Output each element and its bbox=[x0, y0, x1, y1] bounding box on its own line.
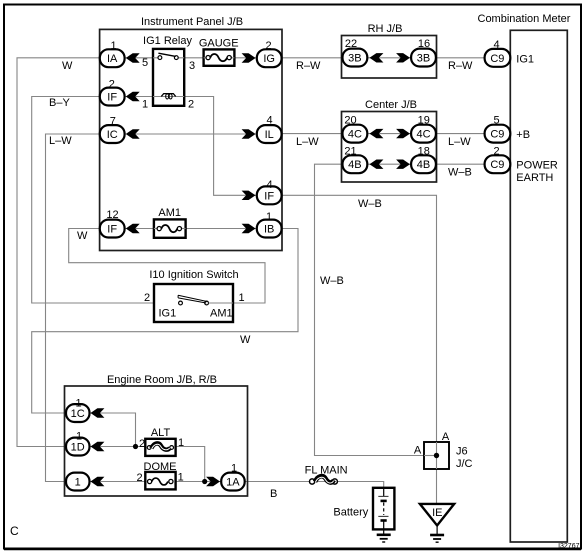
svg-text:2: 2 bbox=[139, 438, 145, 450]
connector C9 5 +B bbox=[485, 125, 511, 143]
connector IB bbox=[257, 220, 282, 238]
wire engine room 1D to ALT fuse pin 2 bbox=[89, 446, 145, 448]
svg-text:W: W bbox=[77, 230, 88, 242]
wire IG to RH J/B 3B, R-W bbox=[281, 57, 342, 59]
GAUGE fuse symbol bbox=[204, 57, 206, 59]
connector C9 4 IG1 bbox=[485, 49, 511, 67]
ignition switch contact IG1 bbox=[179, 301, 183, 305]
svg-text:W–B: W–B bbox=[320, 275, 344, 287]
wire L-W from IC down to engine room oval 1 bbox=[46, 134, 100, 482]
svg-text:1: 1 bbox=[238, 292, 244, 304]
arrow at IA bbox=[126, 53, 140, 62]
arrow at 1C bbox=[91, 408, 105, 417]
Engine Room J/B, R/B box bbox=[65, 386, 248, 496]
svg-text:C9: C9 bbox=[490, 129, 504, 141]
svg-text:R–W: R–W bbox=[448, 60, 473, 72]
arrow at 4C left bbox=[370, 129, 384, 138]
arrow at 3B right bbox=[396, 53, 410, 62]
arrow at 4C right bbox=[396, 129, 410, 138]
arrow at IF4 bbox=[242, 191, 256, 200]
svg-text:IB: IB bbox=[264, 224, 274, 236]
wire RH J/B internal 3B to 3B bbox=[367, 57, 411, 59]
arrow at IF2 bbox=[126, 92, 140, 101]
arrow at IG bbox=[242, 53, 256, 62]
svg-text:IF: IF bbox=[107, 92, 117, 104]
ignition switch wire stub right bbox=[209, 302, 233, 304]
IE ground triangle bbox=[420, 504, 454, 526]
svg-text:I10 Ignition Switch: I10 Ignition Switch bbox=[149, 269, 238, 281]
wire IA row to relay pin 5 bbox=[124, 57, 153, 59]
svg-text:2: 2 bbox=[109, 78, 115, 90]
DOME fuse box bbox=[145, 472, 175, 490]
wire IF(12) to AM1 fuse bbox=[124, 228, 154, 230]
wire Center J/B internal 4C to 4C bbox=[367, 133, 411, 135]
wire Center J/B internal 4B to 4B bbox=[367, 163, 411, 165]
arrow at 4B right bbox=[396, 160, 410, 169]
ignition switch lever bbox=[178, 295, 207, 303]
svg-text:20: 20 bbox=[344, 115, 356, 127]
svg-text:7: 7 bbox=[110, 116, 116, 128]
svg-text:2: 2 bbox=[136, 472, 142, 484]
junction dot 1A row bbox=[202, 479, 207, 484]
connector IA bbox=[100, 49, 125, 67]
wire AM1 fuse to IB bbox=[186, 228, 257, 230]
svg-text:4: 4 bbox=[266, 115, 272, 127]
svg-text:12: 12 bbox=[106, 209, 118, 221]
GAUGE fuse box bbox=[204, 49, 235, 65]
AM1 fuse box bbox=[154, 219, 186, 237]
connector 3B 22 bbox=[343, 49, 368, 67]
svg-text:R–W: R–W bbox=[296, 60, 321, 72]
Instrument Panel J/B box bbox=[100, 29, 282, 250]
svg-text:RH J/B: RH J/B bbox=[368, 23, 403, 35]
svg-text:A: A bbox=[442, 431, 450, 443]
svg-text:1: 1 bbox=[76, 431, 82, 443]
connector 1D bbox=[66, 438, 90, 456]
svg-text:IF: IF bbox=[107, 224, 117, 236]
arrow at 3B left bbox=[370, 53, 384, 62]
FL MAIN fusible link bbox=[310, 479, 315, 484]
svg-text:J6: J6 bbox=[456, 446, 468, 458]
arrow at 1D bbox=[91, 442, 105, 451]
svg-text:1: 1 bbox=[75, 398, 81, 410]
wire IL to Center J/B 4C, L-W bbox=[281, 133, 342, 135]
arrow at 1A bbox=[206, 477, 220, 486]
wire ALT pin 1 down to 1A row bbox=[176, 447, 205, 482]
svg-text:AM1: AM1 bbox=[158, 207, 181, 219]
connector 4B 18 bbox=[411, 155, 436, 173]
arrow at 4B left bbox=[370, 160, 384, 169]
svg-text:IG1: IG1 bbox=[159, 308, 177, 320]
arrow at oval 1 bbox=[91, 477, 105, 486]
wire J6 to IE triangle bbox=[436, 469, 438, 504]
wire B-Y from IF(2) to ignition switch terminal 2 bbox=[32, 97, 178, 304]
relay contact circle pin 5 bbox=[158, 56, 162, 60]
svg-text:3: 3 bbox=[189, 60, 195, 72]
wire IF(4) to J6 vertical, W-B bbox=[281, 195, 436, 442]
connector IL bbox=[257, 125, 282, 143]
connector 4B 21 bbox=[343, 155, 368, 173]
J6 internal wire and dot bbox=[436, 442, 438, 469]
wire 1A to FL MAIN to battery, B bbox=[244, 482, 384, 488]
battery internal plates bbox=[383, 488, 385, 496]
junction dot ALT pin 2 bbox=[133, 444, 138, 449]
svg-text:IL: IL bbox=[265, 129, 274, 141]
svg-text:Battery: Battery bbox=[333, 507, 368, 519]
svg-text:IF: IF bbox=[264, 190, 274, 202]
svg-text:A: A bbox=[414, 445, 422, 457]
svg-text:W–B: W–B bbox=[448, 167, 472, 179]
svg-text:C9: C9 bbox=[490, 53, 504, 65]
svg-text:18: 18 bbox=[418, 145, 430, 157]
wire W from IF(12) to ignition switch terminal 1 loop bbox=[69, 229, 265, 304]
svg-text:C: C bbox=[10, 524, 19, 538]
svg-text:+B: +B bbox=[516, 129, 530, 141]
connector C9 2 POWER EARTH bbox=[485, 155, 511, 173]
relay coil symbol bbox=[161, 94, 175, 97]
connector IG bbox=[257, 49, 282, 67]
relay lever bbox=[158, 53, 175, 56]
connector IF 4 bbox=[257, 186, 282, 204]
arrow at IF12 bbox=[126, 224, 140, 233]
svg-text:4B: 4B bbox=[348, 159, 361, 171]
arrow at IB bbox=[242, 224, 256, 233]
svg-text:W: W bbox=[62, 60, 73, 72]
wire relay pin 2 to IF(4) internal bbox=[184, 97, 257, 196]
svg-text:L–W: L–W bbox=[49, 135, 72, 147]
svg-text:3B: 3B bbox=[417, 53, 430, 65]
svg-text:1: 1 bbox=[231, 463, 237, 475]
outer border bottom thick line bbox=[4, 549, 581, 551]
svg-text:GAUGE: GAUGE bbox=[199, 37, 239, 49]
svg-text:B–Y: B–Y bbox=[49, 97, 70, 109]
wire relay pin 3 to GAUGE bbox=[184, 57, 203, 59]
svg-text:C9: C9 bbox=[490, 159, 504, 171]
connector 3B 16 bbox=[411, 49, 436, 67]
wire engine room 1C to ALT junction bbox=[89, 413, 136, 447]
svg-text:1: 1 bbox=[178, 437, 184, 449]
wire RH J/B to C9 IG1, R-W bbox=[436, 57, 485, 59]
svg-text:3B: 3B bbox=[348, 53, 361, 65]
svg-text:IC: IC bbox=[107, 129, 118, 141]
svg-text:1: 1 bbox=[75, 477, 81, 489]
svg-text:IG1: IG1 bbox=[516, 54, 534, 66]
wire engine room oval 1 to DOME fuse pin 2 bbox=[89, 481, 145, 483]
svg-text:1A: 1A bbox=[226, 477, 240, 489]
svg-text:ALT: ALT bbox=[151, 427, 171, 439]
ignition switch contact AM1 bbox=[205, 301, 209, 305]
svg-text:4B: 4B bbox=[417, 159, 430, 171]
svg-text:19: 19 bbox=[418, 115, 430, 127]
svg-text:1: 1 bbox=[142, 99, 148, 111]
connector 1 bbox=[66, 473, 90, 491]
svg-text:16: 16 bbox=[418, 38, 430, 50]
svg-text:22: 22 bbox=[345, 38, 357, 50]
ground under battery bbox=[383, 529, 385, 534]
svg-text:2: 2 bbox=[493, 145, 499, 157]
svg-text:AM1: AM1 bbox=[210, 308, 233, 320]
svg-text:4: 4 bbox=[266, 179, 272, 191]
ALT fuse box bbox=[145, 439, 175, 456]
connector 4C 20 bbox=[343, 125, 368, 143]
connector IC bbox=[100, 125, 125, 143]
svg-text:5: 5 bbox=[142, 57, 148, 69]
ground under IE bbox=[436, 526, 438, 535]
svg-text:POWER: POWER bbox=[516, 160, 558, 172]
svg-text:4: 4 bbox=[493, 39, 499, 51]
svg-text:2: 2 bbox=[265, 40, 271, 52]
svg-text:DOME: DOME bbox=[144, 461, 177, 473]
svg-text:IE: IE bbox=[432, 507, 442, 519]
wire DOME pin 1 to 1A bbox=[176, 481, 222, 483]
svg-text:1: 1 bbox=[266, 211, 272, 223]
RH J/B box bbox=[342, 36, 437, 79]
svg-text:B: B bbox=[270, 488, 277, 500]
wire 4B(21) left down to J6, W-B bbox=[315, 164, 425, 455]
svg-text:FL MAIN: FL MAIN bbox=[305, 465, 348, 477]
ALT fusible link symbol bbox=[147, 446, 151, 450]
svg-text:1C: 1C bbox=[71, 408, 85, 420]
svg-text:IG: IG bbox=[263, 53, 275, 65]
svg-text:21: 21 bbox=[344, 145, 356, 157]
arrow at IC bbox=[126, 129, 140, 138]
DOME fuse symbol bbox=[148, 479, 152, 483]
svg-text:2: 2 bbox=[144, 292, 150, 304]
svg-text:IG1 Relay: IG1 Relay bbox=[143, 35, 192, 47]
svg-text:1: 1 bbox=[178, 472, 184, 484]
svg-text:Instrument Panel J/B: Instrument Panel J/B bbox=[141, 16, 243, 28]
AM1 fuse symbol bbox=[154, 228, 157, 230]
relay contact stub wires bbox=[153, 57, 158, 59]
svg-text:IA: IA bbox=[107, 53, 118, 65]
svg-text:L–W: L–W bbox=[296, 136, 319, 148]
connector IF 2 bbox=[100, 88, 125, 106]
wire 4C to C9 +B, L-W bbox=[436, 133, 485, 135]
connector 4C 19 bbox=[411, 125, 436, 143]
relay contact circle pin 3 bbox=[174, 56, 178, 60]
svg-text:2: 2 bbox=[188, 99, 194, 111]
wire IF(2) row to relay pin 1 bbox=[124, 96, 153, 98]
Battery box bbox=[373, 488, 394, 530]
arrow at IL bbox=[242, 129, 256, 138]
svg-text:Center J/B: Center J/B bbox=[365, 99, 417, 111]
IG1 Relay box bbox=[153, 49, 184, 106]
connector 1C bbox=[66, 404, 90, 422]
relay coil row wire bbox=[153, 96, 184, 98]
wire W from IB down-left to engine room 1C bbox=[32, 229, 298, 414]
I10 Ignition Switch box bbox=[154, 284, 233, 322]
svg-text:J/C: J/C bbox=[456, 458, 473, 470]
svg-text:4C: 4C bbox=[348, 129, 362, 141]
wire GAUGE to IG bbox=[234, 57, 256, 59]
svg-text:Engine Room J/B, R/B: Engine Room J/B, R/B bbox=[107, 374, 217, 386]
connector 1A bbox=[221, 473, 245, 491]
Combination Meter box bbox=[510, 30, 567, 542]
svg-text:4C: 4C bbox=[416, 129, 430, 141]
svg-text:EARTH: EARTH bbox=[516, 172, 553, 184]
wire 4B to C9 POWER EARTH, W-B bbox=[436, 163, 485, 165]
svg-text:5: 5 bbox=[493, 115, 499, 127]
svg-text:L–W: L–W bbox=[448, 136, 471, 148]
svg-text:Combination Meter: Combination Meter bbox=[478, 13, 571, 25]
svg-text:1D: 1D bbox=[71, 442, 85, 454]
Center J/B box bbox=[342, 112, 437, 183]
J6 J/C junction box bbox=[424, 442, 449, 469]
svg-text:W–B: W–B bbox=[358, 198, 382, 210]
wire J6 internal vertical bbox=[436, 442, 438, 469]
svg-text:1: 1 bbox=[110, 40, 116, 52]
wire IC to IL internal bbox=[124, 133, 257, 135]
connector IF 12 bbox=[100, 220, 125, 238]
svg-text:W: W bbox=[240, 334, 251, 346]
svg-text:I32767: I32767 bbox=[558, 543, 580, 550]
wire W from IA to left bbox=[17, 58, 100, 447]
